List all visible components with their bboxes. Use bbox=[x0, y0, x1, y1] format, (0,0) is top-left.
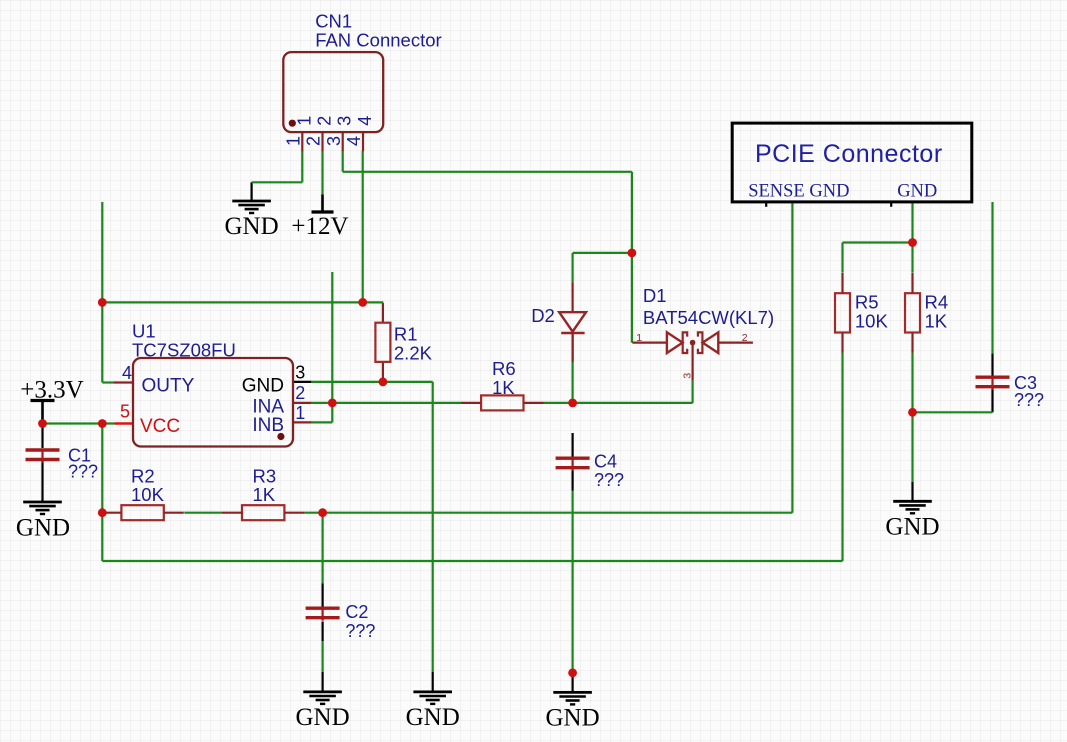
svg-text:1: 1 bbox=[636, 332, 642, 344]
svg-text:1: 1 bbox=[284, 136, 304, 146]
svg-text:10K: 10K bbox=[131, 484, 165, 505]
svg-text:2.2K: 2.2K bbox=[394, 342, 433, 363]
svg-text:GND: GND bbox=[546, 704, 600, 731]
svg-text:GND: GND bbox=[16, 515, 70, 542]
svg-text:2: 2 bbox=[315, 116, 335, 126]
svg-text:4: 4 bbox=[344, 136, 364, 146]
svg-text:VCC: VCC bbox=[140, 416, 180, 437]
svg-text:GND: GND bbox=[885, 514, 939, 541]
svg-text:???: ??? bbox=[68, 462, 98, 482]
svg-text:4: 4 bbox=[355, 116, 375, 126]
svg-text:C2: C2 bbox=[345, 602, 368, 622]
svg-text:GND: GND bbox=[897, 182, 937, 202]
svg-text:2: 2 bbox=[742, 332, 748, 344]
svg-text:3: 3 bbox=[682, 373, 694, 379]
svg-text:10K: 10K bbox=[855, 310, 889, 331]
svg-text:GND: GND bbox=[225, 213, 279, 240]
svg-text:1K: 1K bbox=[925, 310, 948, 331]
svg-text:D1: D1 bbox=[643, 285, 667, 306]
svg-text:1K: 1K bbox=[492, 377, 515, 398]
svg-text:INB: INB bbox=[252, 415, 284, 436]
svg-text:4: 4 bbox=[122, 363, 132, 383]
svg-text:C4: C4 bbox=[594, 452, 617, 472]
svg-text:GND: GND bbox=[296, 704, 350, 731]
svg-text:1: 1 bbox=[295, 403, 305, 423]
svg-text:+3.3V: +3.3V bbox=[20, 376, 83, 403]
svg-text:???: ??? bbox=[345, 621, 375, 641]
svg-text:SENSE GND: SENSE GND bbox=[748, 182, 849, 202]
svg-text:2: 2 bbox=[295, 383, 305, 403]
svg-text:OUTY: OUTY bbox=[142, 376, 195, 397]
svg-text:1: 1 bbox=[294, 116, 314, 126]
svg-text:GND: GND bbox=[406, 704, 460, 731]
svg-text:???: ??? bbox=[1014, 390, 1044, 410]
svg-text:3: 3 bbox=[295, 363, 305, 383]
svg-text:D2: D2 bbox=[531, 305, 555, 326]
svg-text:TC7SZ08FU: TC7SZ08FU bbox=[132, 339, 236, 360]
svg-text:GND: GND bbox=[242, 376, 284, 397]
svg-text:+12V: +12V bbox=[291, 213, 348, 240]
svg-text:3: 3 bbox=[335, 116, 355, 126]
svg-text:???: ??? bbox=[594, 470, 624, 490]
svg-text:1K: 1K bbox=[253, 484, 276, 505]
svg-text:3: 3 bbox=[324, 136, 344, 146]
svg-text:FAN Connector: FAN Connector bbox=[315, 29, 441, 50]
svg-text:2: 2 bbox=[304, 136, 324, 146]
svg-text:PCIE Connector: PCIE Connector bbox=[755, 140, 943, 168]
svg-text:5: 5 bbox=[120, 402, 130, 422]
svg-text:BAT54CW(KL7): BAT54CW(KL7) bbox=[643, 307, 774, 328]
